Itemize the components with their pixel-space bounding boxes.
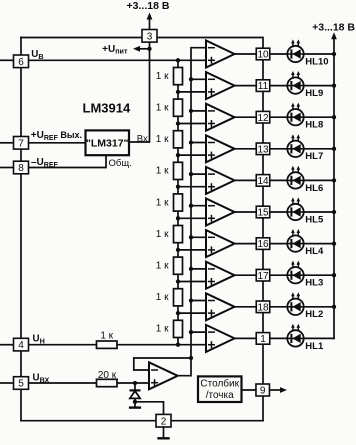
wire: diode anode node to pin 2 — [135, 402, 164, 415]
power: +Upit arrow label — [102, 44, 149, 56]
wire: comparator 8 output to pin 17 — [235, 274, 257, 276]
node: minus bus junction row 4 — [189, 140, 193, 144]
svg-text:8: 8 — [18, 163, 24, 174]
wire: LED HL2 anode to +V rail — [303, 306, 334, 308]
wire: pin 18 to LED HL2 cathode — [270, 306, 288, 308]
node: divider tap 3 — [176, 153, 180, 157]
svg-text:1 к: 1 к — [156, 166, 169, 177]
LED HL2 — [287, 292, 323, 320]
svg-text:1 к: 1 к — [100, 330, 113, 341]
svg-text:+3...18 В: +3...18 В — [312, 22, 355, 34]
node: minus bus junction row 2 — [189, 77, 193, 81]
pin 12 (LED HL8 output) — [256, 111, 270, 123]
svg-text:7: 7 — [18, 138, 24, 149]
wire: resistor divider chain vertical — [177, 60, 179, 344]
LED HL7 — [287, 134, 323, 162]
LED HL4 — [287, 229, 324, 257]
pin 16 (LED HL4 output) — [256, 238, 270, 250]
svg-text:HL4: HL4 — [305, 246, 324, 257]
node: +V rail junction at HL6 — [332, 178, 336, 182]
op-amp comparator 3 (output pin 12) — [206, 104, 235, 131]
op-amp comparator 1 (output pin 10) — [206, 41, 235, 68]
LED HL5 — [287, 197, 324, 225]
wire: comparator 8 inverting input stub — [191, 268, 206, 270]
svg-text:11: 11 — [258, 81, 269, 92]
svg-text:20 к: 20 к — [98, 370, 117, 381]
LED HL3 — [287, 261, 323, 289]
wire: minus-input bus from comparator 1 down to buffer output — [178, 48, 206, 376]
node: +V rail junction at HL7 — [332, 147, 336, 151]
label: U_N (pin 4) — [33, 334, 45, 346]
op-amp comparator 10 (output pin 1) — [206, 325, 235, 352]
wire: comparator 7 inverting input stub — [191, 236, 206, 238]
svg-text:18: 18 — [257, 302, 269, 313]
node: junction below pin 3 (+Upit) — [147, 47, 151, 51]
wire: comparator 2 output to pin 11 — [235, 85, 257, 87]
wire: LED HL6 anode to +V rail — [303, 179, 334, 181]
svg-text:13: 13 — [257, 144, 269, 155]
svg-text:1 к: 1 к — [156, 261, 169, 272]
pin 10 (LED HL10 output) — [256, 48, 270, 60]
node: minus bus junction row 6 — [189, 204, 193, 208]
op-amp input buffer — [149, 362, 178, 389]
svg-text:17: 17 — [257, 271, 269, 282]
wire: comparator 9 inverting input stub — [191, 300, 206, 302]
power: pin 9 output arrow — [270, 387, 287, 393]
wire: protection diode branch from node A down — [134, 383, 136, 402]
label: -U_REF (pin 8) — [31, 157, 59, 169]
power: +3...18 V arrow above pin 3 — [127, 0, 170, 29]
wire: LED HL10 anode to +V rail — [303, 53, 334, 55]
wire: pin 7 to LM317 output — [21, 142, 86, 144]
node: +V rail junction at HL3 — [332, 273, 336, 277]
block: bar/dot mode select (Stolbik/tochka) — [198, 376, 242, 402]
node: divider tap 2 — [176, 121, 180, 125]
LED HL10 — [287, 39, 328, 67]
wire: LED HL8 anode to +V rail — [303, 116, 334, 118]
node: node A (buffer + input / diode) — [133, 381, 137, 385]
ground: under pin 2 — [157, 427, 169, 438]
wire: +Upit column from pin 3 down to LM317 input — [130, 42, 150, 142]
pin 14 (LED HL6 output) — [256, 175, 270, 187]
wire: LED HL5 anode to +V rail — [303, 211, 334, 213]
svg-text:HL6: HL6 — [305, 183, 323, 194]
node: minus bus junction row 3 — [189, 109, 193, 113]
pin 8 (REF ADJ) — [14, 161, 29, 174]
pin 2 (GND) — [156, 414, 171, 427]
wire: pin 8 external stub — [1, 167, 15, 169]
label: +U_REF Vykh. (pin 7) — [31, 130, 82, 142]
wire: pin 15 to LED HL5 cathode — [270, 211, 288, 213]
wire: comparator 10 output to pin 1 — [235, 337, 257, 339]
op-amp comparator 2 (output pin 11) — [206, 72, 235, 99]
wire: buffer feedback loop output to inverting input — [134, 358, 191, 370]
resistor R10 1k (to pin 4) — [97, 330, 118, 348]
wire: left bus (pins 6-7-8-4-5 to bottom rail) — [20, 38, 22, 421]
wire: comparator 4 output to pin 13 — [235, 148, 257, 150]
op-amp comparator 4 (output pin 13) — [206, 135, 235, 162]
LED HL6 — [287, 166, 323, 194]
pin 6 (RHI) — [14, 55, 29, 68]
pin 1 (LED HL1 output) — [256, 333, 270, 345]
svg-text:HL2: HL2 — [305, 309, 323, 320]
wire: comparator 5 output to pin 14 — [235, 179, 257, 181]
svg-text:2: 2 — [161, 416, 167, 427]
svg-text:3: 3 — [147, 31, 153, 42]
wire: comparator 5 inverting input stub — [191, 173, 206, 175]
node: divider tap 7 — [176, 279, 180, 283]
label: U_BX (pin 5) — [33, 373, 50, 385]
wire: comparator 9 output to pin 18 — [235, 306, 257, 308]
wire: comparator 6 output to pin 15 — [235, 211, 257, 213]
pin 4 (RLO) — [14, 338, 29, 351]
wire: comparator 6 inverting input stub — [191, 205, 206, 207]
svg-text:14: 14 — [257, 176, 269, 187]
svg-text:1 к: 1 к — [156, 71, 169, 82]
LED HL8 — [287, 103, 323, 131]
wire: comparator 3 output to pin 12 — [235, 116, 257, 118]
LED HL9 — [287, 71, 323, 99]
op-amp comparator 9 (output pin 18) — [206, 293, 235, 320]
svg-text:1 к: 1 к — [156, 229, 169, 240]
wire: divider tap 2 to comparator 3 "+" input — [178, 123, 206, 125]
wire: divider tap 5 to comparator 6 "+" input — [178, 217, 206, 219]
wire: divider tap 8 to comparator 9 "+" input — [178, 312, 206, 314]
pin 9 (MODE) — [256, 384, 270, 397]
wire: LED HL3 anode to +V rail — [303, 274, 334, 276]
resistor R8 1k (divider) — [156, 289, 183, 306]
wire: pin 6 external stub — [1, 59, 15, 61]
svg-text:5: 5 — [18, 379, 24, 390]
svg-text:HL3: HL3 — [305, 278, 323, 289]
svg-text:+3...18 В: +3...18 В — [127, 0, 170, 12]
op-amp comparator 5 (output pin 14) — [206, 167, 235, 194]
node: diode anode junction — [133, 400, 137, 404]
wire: bottom bus from left corner through pin 2 to right corner — [21, 420, 263, 422]
wire: pin 8 to LM317 common — [21, 155, 106, 168]
wire: divider tap 4 to comparator 5 "+" input — [178, 186, 206, 188]
resistor R2 1k (divider) — [156, 99, 183, 116]
wire: mode box to pin 9 — [242, 389, 257, 391]
node: minus bus junction row 9 — [189, 298, 193, 302]
resistor R4 1k (divider) — [156, 162, 183, 179]
pin 18 (LED HL2 output) — [256, 301, 270, 313]
node: +V rail junction at HL5 — [332, 210, 336, 214]
svg-text:HL9: HL9 — [305, 88, 323, 99]
wire: pin 10 to LED HL10 cathode — [270, 53, 288, 55]
svg-text:Вх.: Вх. — [137, 133, 151, 144]
wire: divider tap 6 to comparator 7 "+" input — [178, 249, 206, 251]
svg-text:1 к: 1 к — [156, 134, 169, 145]
svg-text:10: 10 — [257, 50, 269, 61]
wire: comparator 4 inverting input stub — [191, 142, 206, 144]
node: divider tap 6 — [176, 248, 180, 252]
node: +V rail junction at HL8 — [332, 115, 336, 119]
svg-text:1 к: 1 к — [156, 103, 169, 114]
svg-text:1 к: 1 к — [156, 197, 169, 208]
svg-text:HL5: HL5 — [305, 214, 324, 225]
svg-text:LM3914: LM3914 — [83, 101, 131, 116]
wire: pin 17 to LED HL3 cathode — [270, 274, 288, 276]
svg-text:HL10: HL10 — [305, 56, 328, 67]
node: divider tap 0 — [176, 58, 180, 62]
svg-text:1 к: 1 к — [156, 324, 169, 335]
resistor R11 20k (input) — [97, 370, 118, 387]
power: +3...18 V arrow on LED rail — [312, 22, 355, 54]
label: LM317 Vx. (input) pin — [137, 133, 151, 144]
ground: under diode VD1 — [129, 402, 141, 408]
node: divider tap 1 — [176, 90, 180, 94]
resistor R9 1k (divider) — [156, 320, 183, 337]
svg-text:HL7: HL7 — [305, 151, 323, 162]
node: feedback tee on buffer output — [189, 356, 193, 360]
node: divider tap 4 — [176, 185, 180, 189]
svg-text:Столбик: Столбик — [200, 378, 239, 390]
node: +V rail junction at HL10 — [332, 52, 336, 56]
node: +V rail junction at HL4 — [332, 241, 336, 245]
wire: top bus from left corner through pin 3 to right corner — [21, 38, 263, 49]
node: divider tap 9 — [176, 343, 180, 347]
op-amp comparator 8 (output pin 17) — [206, 262, 235, 289]
wire: U_H line pin 4 through R10 to divider bottom and comparator 10 "+" input — [21, 344, 206, 346]
wire: divider tap 7 to comparator 8 "+" input — [178, 281, 206, 283]
LED HL1 — [287, 324, 324, 352]
pin 11 (LED HL9 output) — [256, 80, 270, 92]
label: LM3914 device name — [83, 101, 131, 116]
wire: pin 13 to LED HL7 cathode — [270, 148, 288, 150]
op-amp comparator 6 (output pin 15) — [206, 199, 235, 226]
wire: comparator 2 inverting input stub — [191, 78, 206, 80]
wire: comparator 7 output to pin 16 — [235, 243, 257, 245]
svg-text:+Uпит: +Uпит — [102, 44, 128, 56]
wire: LED HL7 anode to +V rail — [303, 148, 334, 150]
op-amp comparator 7 (output pin 16) — [206, 230, 235, 257]
svg-text:6: 6 — [18, 57, 24, 68]
pin 3 (V+) — [142, 30, 157, 43]
resistor R6 1k (divider) — [156, 226, 183, 243]
svg-text:16: 16 — [257, 239, 269, 250]
wire: U_BX line pin 5 through R11 to buffer "+" input — [21, 382, 149, 384]
wire: pin 16 to LED HL4 cathode — [270, 243, 288, 245]
pin 15 (LED HL5 output) — [256, 206, 270, 218]
resistor R3 1k (divider) — [156, 131, 183, 148]
wire: comparator 1 output to pin 10 — [235, 53, 257, 55]
wire: pin 12 to LED HL8 cathode — [270, 116, 288, 118]
diode VD1 (input clamp), cathode up — [130, 390, 141, 398]
pin 5 (SIG IN) — [14, 377, 29, 390]
wire: LED +V rail — [333, 54, 335, 338]
wire: divider tap 3 to comparator 4 "+" input — [178, 154, 206, 156]
pin 7 (REF OUT) — [14, 137, 29, 150]
node: minus bus junction row 5 — [189, 172, 193, 176]
svg-text:9: 9 — [260, 386, 266, 397]
wire: pin 11 to LED HL9 cathode — [270, 85, 288, 87]
svg-text:Общ.: Общ. — [109, 158, 132, 169]
node: minus bus junction row 10 — [189, 330, 193, 334]
resistor R7 1k (divider) — [156, 257, 183, 274]
wire: right bus through output pin boxes 10..18,1,9 — [262, 48, 264, 421]
block U2 "LM317" voltage regulator — [86, 130, 130, 155]
wire: pin 4 external stub — [1, 344, 15, 346]
wire: pin 1 to LED HL1 cathode — [270, 337, 288, 339]
svg-text:"LM317": "LM317" — [86, 138, 129, 150]
wire: pin 7 external stub — [1, 142, 15, 144]
svg-text:15: 15 — [257, 208, 269, 219]
resistor R1 1k (divider) — [156, 68, 183, 85]
wire: divider tap 1 to comparator 2 "+" input — [178, 91, 206, 93]
node: minus bus junction row 7 — [189, 235, 193, 239]
label: LM317 Obshch. (common) pin — [109, 158, 132, 169]
svg-text:HL1: HL1 — [305, 341, 324, 352]
node: minus bus junction row 8 — [189, 267, 193, 271]
pin 13 (LED HL7 output) — [256, 143, 270, 155]
wire: LED HL4 anode to +V rail — [303, 243, 334, 245]
node: +V rail junction at HL2 — [332, 305, 336, 309]
wire: comparator 3 inverting input stub — [191, 110, 206, 112]
label: U_B (pin 6) — [31, 49, 43, 61]
node: divider tap 8 — [176, 311, 180, 315]
node: divider tap 5 — [176, 216, 180, 220]
wire: pin 14 to LED HL6 cathode — [270, 179, 288, 181]
node: +V rail junction at HL9 — [332, 83, 336, 87]
svg-text:1: 1 — [260, 334, 266, 345]
svg-text:HL8: HL8 — [305, 120, 323, 131]
wire: LED HL1 anode to +V rail — [303, 337, 334, 339]
wire: U_B line pin 6 to divider top and comparator 1 "+" input — [21, 59, 206, 61]
wire: LED HL9 anode to +V rail — [303, 85, 334, 87]
svg-text:1 к: 1 к — [156, 292, 169, 303]
wire: comparator 10 inverting input stub — [191, 331, 206, 333]
wire: pin 5 external stub — [1, 382, 15, 384]
svg-text:/точка: /точка — [206, 390, 234, 401]
svg-text:12: 12 — [257, 113, 269, 124]
resistor R5 1k (divider) — [156, 194, 183, 211]
pin 17 (LED HL3 output) — [256, 269, 270, 281]
svg-text:4: 4 — [18, 340, 24, 351]
